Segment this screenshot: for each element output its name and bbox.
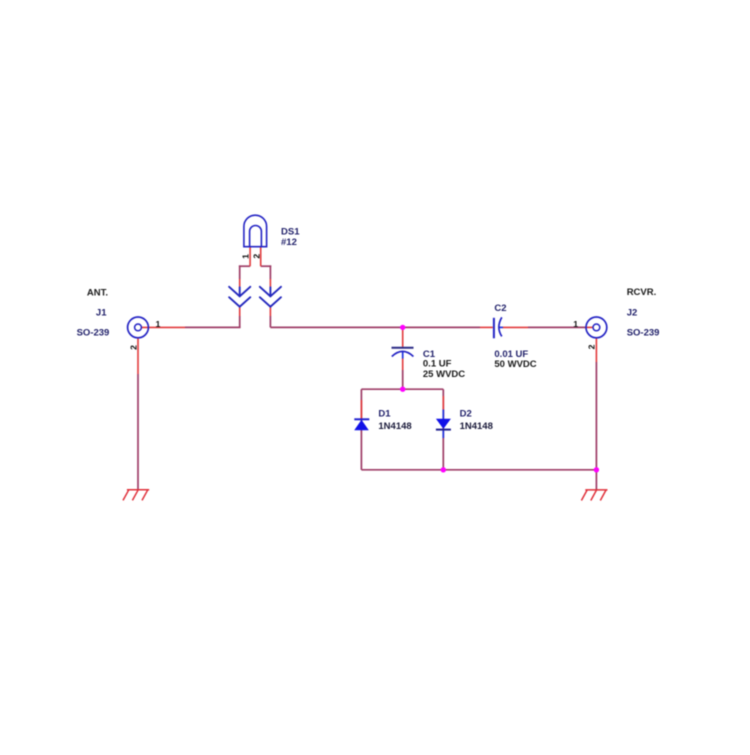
svg-text:2: 2 [129, 345, 139, 350]
svg-text:1: 1 [156, 319, 161, 329]
svg-text:ANT.: ANT. [87, 287, 108, 298]
svg-text:1N4148: 1N4148 [460, 421, 493, 432]
svg-text:SO-239: SO-239 [77, 328, 110, 339]
svg-text:J1: J1 [96, 307, 107, 318]
svg-text:2: 2 [586, 344, 596, 349]
svg-text:1N4148: 1N4148 [378, 421, 411, 432]
svg-text:RCVR.: RCVR. [627, 287, 657, 298]
svg-text:J2: J2 [627, 307, 638, 318]
svg-text:C2: C2 [494, 303, 506, 314]
svg-text:50 WVDC: 50 WVDC [494, 359, 536, 370]
svg-text:0.1 UF: 0.1 UF [423, 358, 452, 369]
svg-text:1: 1 [241, 254, 251, 259]
svg-text:D2: D2 [460, 409, 472, 420]
svg-text:#12: #12 [281, 237, 297, 248]
svg-text:1: 1 [573, 319, 578, 329]
svg-text:25 WVDC: 25 WVDC [423, 369, 465, 380]
svg-text:DS1: DS1 [281, 226, 300, 237]
svg-text:2: 2 [251, 254, 261, 259]
svg-text:D1: D1 [378, 409, 391, 420]
svg-text:SO-239: SO-239 [627, 328, 660, 339]
